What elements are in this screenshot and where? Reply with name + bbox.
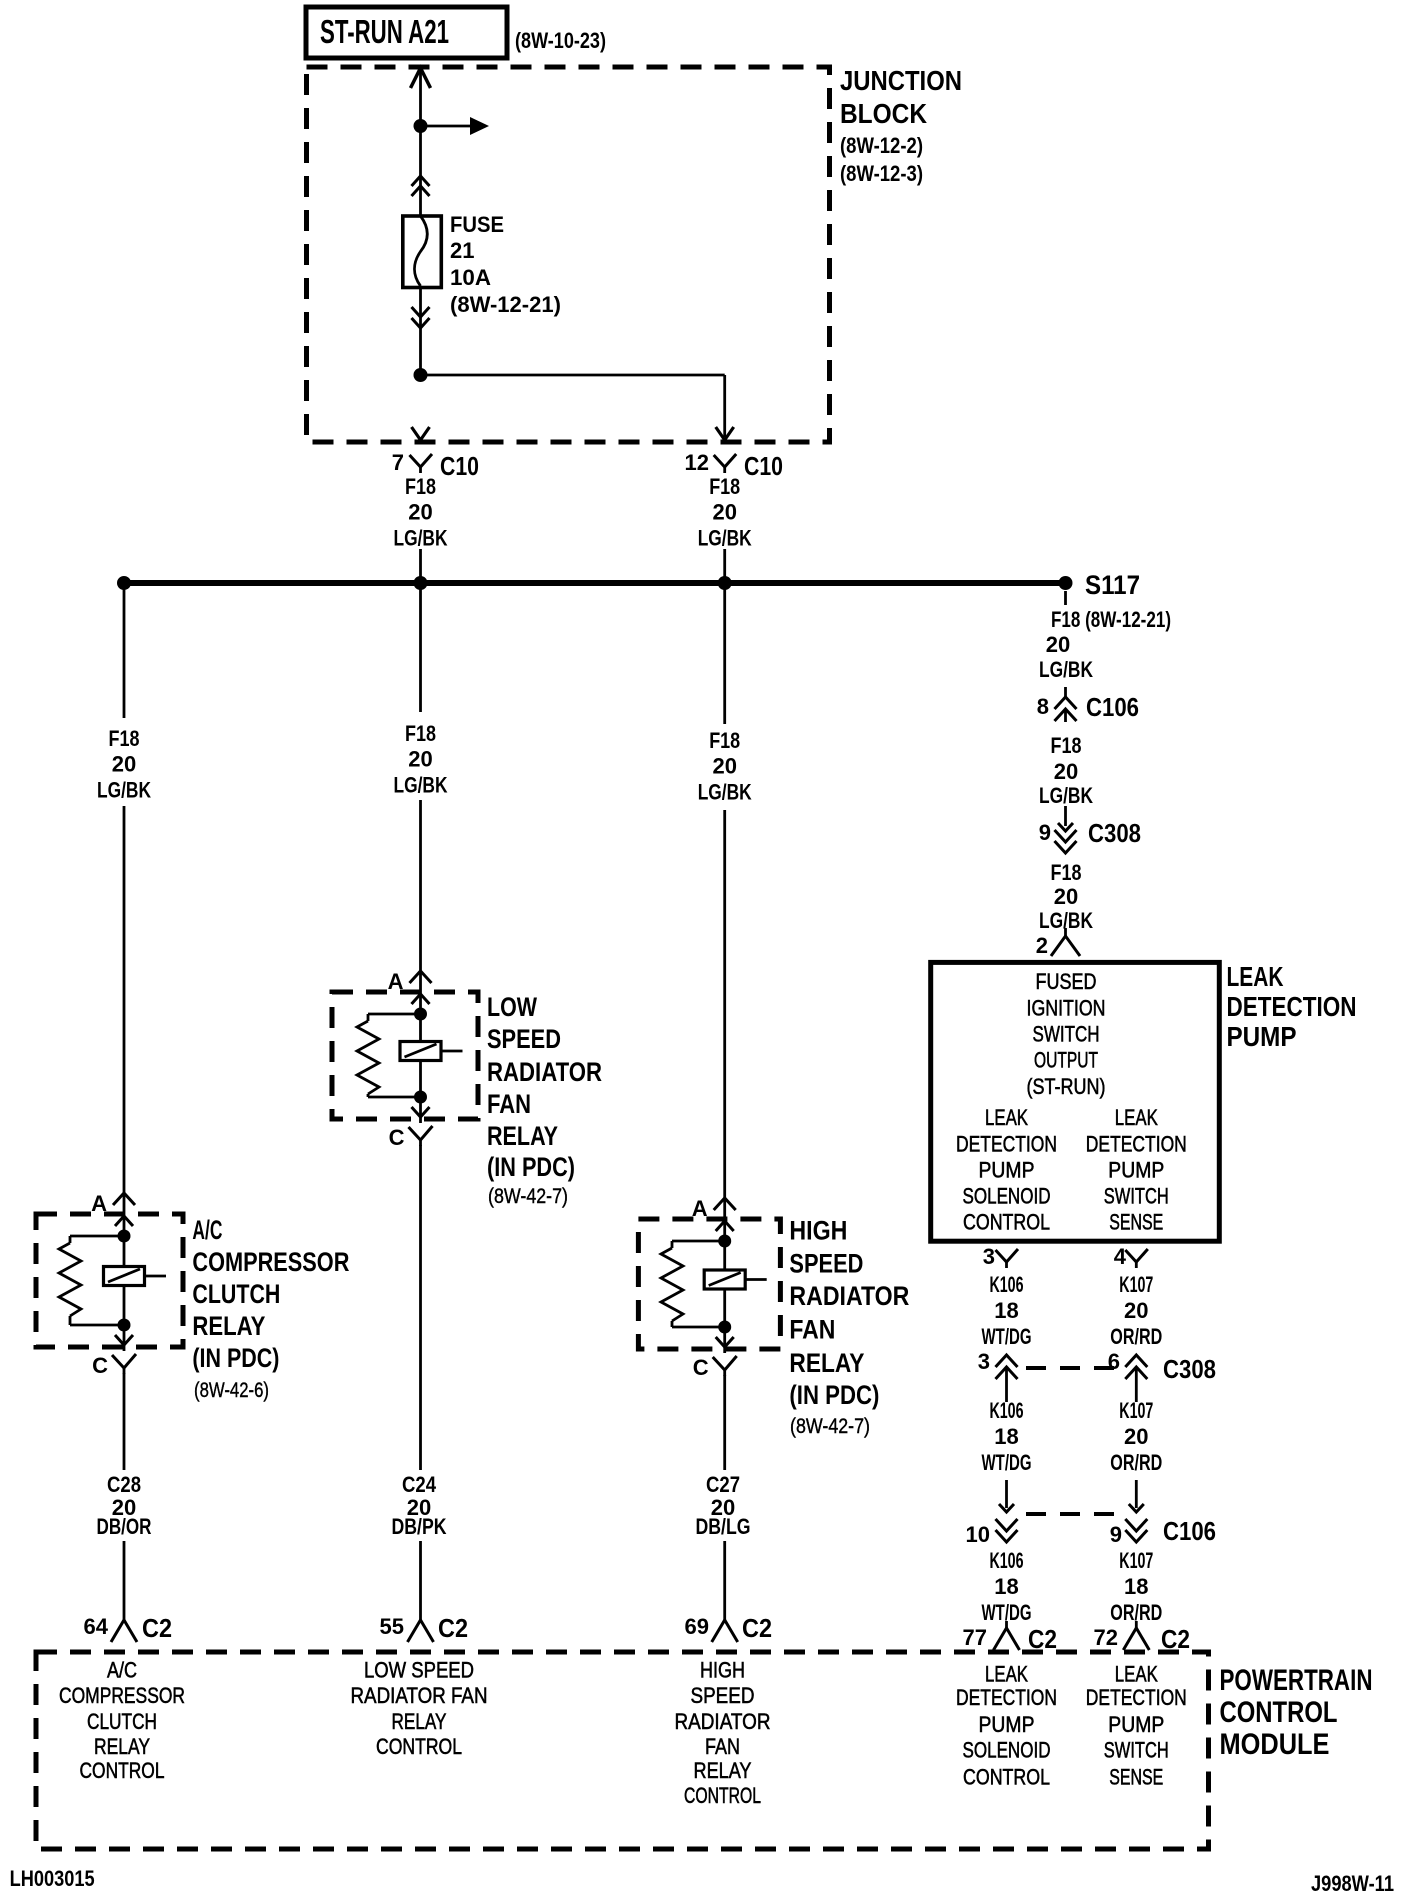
svg-text:C: C (389, 1125, 405, 1150)
splice S117 (1059, 576, 1073, 590)
svg-text:LH003015: LH003015 (10, 1866, 95, 1891)
svg-text:FUSED: FUSED (1036, 969, 1097, 994)
svg-text:F18: F18 (109, 726, 140, 751)
svg-text:RADIATOR: RADIATOR (789, 1281, 909, 1311)
relay coil winding (704, 1270, 745, 1289)
relay coil wire (419, 1014, 422, 1042)
dashed connector link C106 (1026, 1512, 1114, 1516)
svg-text:20: 20 (1124, 1298, 1148, 1323)
wire bus to low speed relay (419, 583, 422, 712)
svg-text:8: 8 (1037, 694, 1049, 719)
svg-text:12: 12 (685, 450, 709, 475)
relay coil dashed enclosure (36, 1214, 183, 1347)
svg-text:RADIATOR: RADIATOR (675, 1709, 771, 1734)
svg-text:C: C (92, 1353, 108, 1378)
svg-text:CONTROL: CONTROL (376, 1734, 462, 1759)
svg-text:2: 2 (1036, 933, 1048, 958)
relay coil wire (723, 1241, 726, 1270)
svg-text:LG/BK: LG/BK (698, 526, 752, 551)
svg-text:6: 6 (1108, 1349, 1120, 1374)
svg-text:HIGH: HIGH (700, 1658, 745, 1683)
svg-text:F18 (8W-12-21): F18 (8W-12-21) (1051, 607, 1171, 632)
svg-text:SPEED: SPEED (789, 1249, 863, 1279)
svg-text:DETECTION: DETECTION (1227, 991, 1357, 1022)
svg-text:4: 4 (1114, 1244, 1127, 1269)
svg-text:COMPRESSOR: COMPRESSOR (192, 1247, 349, 1277)
dashed connector link C308 (1026, 1366, 1114, 1370)
svg-text:IGNITION: IGNITION (1027, 996, 1106, 1021)
svg-text:C106: C106 (1163, 1516, 1216, 1546)
svg-text:(8W-12-21): (8W-12-21) (450, 292, 561, 317)
pin C chevron below relay (713, 1356, 737, 1370)
svg-text:OR/RD: OR/RD (1110, 1450, 1162, 1475)
svg-text:FAN: FAN (705, 1734, 740, 1759)
svg-text:RELAY: RELAY (392, 1709, 447, 1734)
svg-text:SOLENOID: SOLENOID (963, 1737, 1051, 1762)
svg-text:(8W-12-2): (8W-12-2) (840, 133, 923, 158)
svg-text:F18: F18 (709, 474, 740, 499)
wire relay top node to resistor (672, 1240, 725, 1243)
svg-text:55: 55 (380, 1614, 404, 1639)
svg-text:(8W-42-7): (8W-42-7) (488, 1185, 568, 1208)
connector C308 pin 9 (1064, 806, 1067, 826)
svg-text:S117: S117 (1085, 570, 1140, 600)
svg-text:C2: C2 (742, 1613, 772, 1643)
svg-text:20: 20 (408, 747, 432, 772)
svg-text:LG/BK: LG/BK (394, 773, 448, 798)
bus wire F18 to splice S117 (124, 580, 1066, 586)
svg-text:F18: F18 (1051, 860, 1082, 885)
relay coil node top (118, 1230, 131, 1243)
svg-text:FUSE: FUSE (450, 212, 504, 237)
svg-text:(8W-42-7): (8W-42-7) (790, 1415, 870, 1438)
wire high speed relay to label (723, 1375, 726, 1470)
wire stub pin12 to bus (723, 549, 726, 581)
svg-text:(ST-RUN): (ST-RUN) (1027, 1074, 1106, 1099)
svg-text:C308: C308 (1163, 1354, 1216, 1384)
svg-text:K106: K106 (990, 1272, 1024, 1297)
svg-text:CLUTCH: CLUTCH (192, 1279, 280, 1309)
svg-text:DB/LG: DB/LG (696, 1514, 751, 1539)
svg-text:(8W-42-6): (8W-42-6) (194, 1379, 269, 1402)
svg-text:20: 20 (1124, 1424, 1148, 1449)
svg-text:J998W-11: J998W-11 (1311, 1871, 1394, 1896)
relay coil node top (718, 1235, 731, 1248)
svg-text:LEAK: LEAK (1227, 961, 1284, 992)
wire leaving relay with arrowhead (716, 1337, 734, 1347)
svg-text:C: C (693, 1355, 709, 1380)
svg-text:A: A (388, 969, 404, 994)
svg-text:(IN PDC): (IN PDC) (487, 1152, 575, 1182)
svg-text:F18: F18 (709, 728, 740, 753)
relay coil node bottom (118, 1319, 131, 1332)
svg-text:21: 21 (450, 238, 474, 263)
svg-text:F18: F18 (405, 474, 436, 499)
svg-text:A/C: A/C (192, 1215, 222, 1245)
svg-text:C10: C10 (440, 451, 479, 481)
svg-text:20: 20 (112, 752, 136, 777)
svg-text:RELAY: RELAY (192, 1311, 265, 1341)
svg-text:DETECTION: DETECTION (956, 1132, 1057, 1157)
svg-text:DB/OR: DB/OR (97, 1514, 152, 1539)
wire bus to A/C relay (123, 583, 126, 718)
connector C106 pin 8 (1064, 687, 1067, 697)
svg-text:LG/BK: LG/BK (1039, 783, 1093, 808)
fuse 21 10A (403, 216, 442, 288)
wire stub pin7 to bus (419, 549, 422, 581)
svg-text:LEAK: LEAK (1115, 1662, 1158, 1687)
svg-text:JUNCTION: JUNCTION (840, 65, 962, 96)
powertrain control module dashed enclosure (36, 1652, 1209, 1849)
wire bus to high speed relay (723, 583, 726, 724)
connector chevrons above fuse (412, 176, 430, 186)
svg-text:(IN PDC): (IN PDC) (192, 1343, 279, 1373)
svg-text:RELAY: RELAY (94, 1734, 150, 1759)
svg-text:C28: C28 (107, 1472, 141, 1497)
svg-text:FAN: FAN (789, 1315, 835, 1345)
svg-text:18: 18 (1124, 1574, 1148, 1599)
relay coil node bottom (718, 1321, 731, 1334)
svg-text:(IN PDC): (IN PDC) (789, 1380, 879, 1410)
svg-text:ST-RUN A21: ST-RUN A21 (320, 13, 449, 50)
wire tap arrow to right (421, 125, 482, 128)
svg-text:20: 20 (712, 754, 736, 779)
wire to high speed relay pin A (723, 810, 726, 1241)
svg-text:RADIATOR: RADIATOR (487, 1057, 602, 1087)
wire relay top node to resistor (368, 1013, 421, 1016)
wire relay top node to resistor (70, 1235, 124, 1238)
svg-text:LOW: LOW (487, 992, 537, 1022)
svg-text:F18: F18 (1051, 733, 1082, 758)
svg-text:PUMP: PUMP (979, 1158, 1035, 1183)
svg-text:POWERTRAIN: POWERTRAIN (1220, 1664, 1373, 1697)
relay coil node top (414, 1008, 427, 1021)
power feed box ST-RUN A21 (306, 7, 507, 58)
relay suppression resistor (69, 1236, 72, 1243)
wire to PCM pin 69 (723, 1541, 726, 1613)
wire relay bottom node to resistor (70, 1324, 124, 1327)
relay armature stub (745, 1278, 767, 1281)
svg-text:PUMP: PUMP (979, 1712, 1035, 1737)
svg-text:SWITCH: SWITCH (1033, 1022, 1100, 1047)
svg-text:CLUTCH: CLUTCH (87, 1709, 157, 1734)
wire leaving relay with arrowhead (412, 1107, 430, 1117)
svg-text:PUMP: PUMP (1227, 1021, 1297, 1052)
svg-text:CONTROL: CONTROL (80, 1758, 165, 1783)
svg-text:RELAY: RELAY (694, 1758, 752, 1783)
relay coil dashed enclosure (332, 992, 478, 1119)
svg-text:A/C: A/C (107, 1658, 137, 1683)
svg-text:CONTROL: CONTROL (1220, 1696, 1338, 1729)
svg-text:PUMP: PUMP (1108, 1712, 1164, 1737)
relay suppression resistor (367, 1014, 370, 1021)
svg-text:20: 20 (1046, 632, 1070, 657)
svg-text:K106: K106 (990, 1398, 1024, 1423)
svg-text:10: 10 (966, 1522, 990, 1547)
wire leaving relay with arrowhead (115, 1335, 133, 1345)
svg-text:C2: C2 (438, 1613, 468, 1643)
svg-text:72: 72 (1094, 1625, 1118, 1650)
svg-text:64: 64 (84, 1614, 109, 1639)
svg-text:(8W-10-23): (8W-10-23) (515, 28, 606, 53)
svg-text:DETECTION: DETECTION (1086, 1685, 1187, 1710)
svg-text:9: 9 (1039, 820, 1051, 845)
wire to PCM pin 55 (419, 1541, 422, 1613)
wire splice branch to C10 pin 12 (421, 374, 725, 377)
wire feed from ST-RUN into junction block (419, 70, 422, 216)
relay armature stub (145, 1275, 167, 1278)
svg-text:7: 7 (392, 450, 404, 475)
svg-text:RELAY: RELAY (789, 1348, 864, 1378)
svg-text:OR/RD: OR/RD (1110, 1324, 1162, 1349)
svg-text:LEAK: LEAK (985, 1105, 1028, 1130)
wire low speed relay to label (419, 1145, 422, 1470)
svg-text:18: 18 (994, 1574, 1018, 1599)
svg-text:18: 18 (994, 1298, 1018, 1323)
svg-text:OUTPUT: OUTPUT (1034, 1048, 1098, 1073)
svg-text:RELAY: RELAY (487, 1121, 558, 1151)
relay armature stub (441, 1050, 463, 1053)
svg-text:20: 20 (1054, 884, 1078, 909)
svg-text:A: A (692, 1196, 708, 1221)
svg-text:69: 69 (685, 1614, 709, 1639)
svg-text:C27: C27 (706, 1472, 740, 1497)
node junction block tap (414, 119, 428, 133)
svg-text:LEAK: LEAK (1115, 1105, 1158, 1130)
wire to low speed relay pin A (419, 800, 422, 1013)
svg-text:BLOCK: BLOCK (840, 98, 927, 129)
relay suppression resistor (671, 1241, 674, 1248)
svg-text:20: 20 (712, 500, 736, 525)
wire A/C relay to label (123, 1373, 126, 1470)
svg-text:LG/BK: LG/BK (1039, 657, 1093, 682)
wire splice down to C10 pin 7 (412, 427, 430, 440)
svg-text:20: 20 (1054, 759, 1078, 784)
svg-text:(8W-12-3): (8W-12-3) (840, 161, 923, 186)
svg-text:PUMP: PUMP (1108, 1158, 1164, 1183)
svg-text:SWITCH: SWITCH (1104, 1184, 1169, 1209)
svg-text:LOW SPEED: LOW SPEED (364, 1658, 474, 1683)
svg-text:LG/BK: LG/BK (394, 526, 448, 551)
relay coil wire (123, 1236, 126, 1267)
svg-text:HIGH: HIGH (789, 1216, 847, 1246)
svg-text:CONTROL: CONTROL (684, 1783, 761, 1808)
wire to A/C relay pin A (123, 806, 126, 1236)
pin A chevron above relay (714, 1198, 736, 1210)
svg-text:DETECTION: DETECTION (956, 1685, 1057, 1710)
pin C chevron below relay (409, 1126, 433, 1140)
svg-text:WT/DG: WT/DG (982, 1324, 1032, 1349)
svg-text:FAN: FAN (487, 1089, 531, 1119)
svg-text:K107: K107 (1119, 1398, 1153, 1423)
svg-text:SPEED: SPEED (487, 1024, 561, 1054)
pin A chevron above relay (410, 971, 432, 983)
svg-text:DB/PK: DB/PK (392, 1514, 447, 1539)
wire entering relay with arrowhead (412, 994, 430, 1004)
wire entering relay with arrowhead (115, 1216, 133, 1226)
svg-text:RADIATOR FAN: RADIATOR FAN (351, 1683, 488, 1708)
leak detection pump box (931, 962, 1220, 1241)
svg-text:WT/DG: WT/DG (982, 1450, 1032, 1475)
connector C106 pin 10 (1005, 1480, 1008, 1508)
relay coil node bottom (414, 1091, 427, 1104)
svg-text:SWITCH: SWITCH (1104, 1737, 1169, 1762)
svg-text:3: 3 (983, 1244, 995, 1269)
svg-text:K107: K107 (1119, 1272, 1153, 1297)
svg-text:LG/BK: LG/BK (97, 778, 151, 803)
pin C chevron below relay (112, 1354, 136, 1368)
svg-text:18: 18 (994, 1424, 1018, 1449)
node splice inside junction block (414, 368, 428, 382)
svg-text:K106: K106 (990, 1548, 1024, 1573)
svg-text:9: 9 (1110, 1522, 1122, 1547)
relay coil winding (400, 1042, 441, 1061)
svg-text:3: 3 (978, 1349, 990, 1374)
svg-text:C24: C24 (402, 1472, 437, 1497)
svg-text:K107: K107 (1119, 1548, 1153, 1573)
node bus left end (117, 576, 131, 590)
svg-text:SPEED: SPEED (691, 1683, 755, 1708)
svg-text:C308: C308 (1088, 818, 1141, 848)
svg-text:LG/BK: LG/BK (698, 780, 752, 805)
relay coil winding (104, 1267, 145, 1286)
svg-text:C106: C106 (1086, 692, 1139, 722)
svg-text:F18: F18 (405, 721, 436, 746)
svg-text:SENSE: SENSE (1109, 1765, 1163, 1790)
relay coil dashed enclosure (638, 1219, 780, 1349)
svg-text:A: A (91, 1191, 107, 1216)
wire to PCM pin 64 (123, 1541, 126, 1613)
svg-text:DETECTION: DETECTION (1086, 1132, 1187, 1157)
junction block dashed enclosure (307, 67, 830, 442)
svg-text:CONTROL: CONTROL (963, 1210, 1050, 1235)
svg-text:COMPRESSOR: COMPRESSOR (59, 1683, 185, 1708)
svg-text:LEAK: LEAK (985, 1662, 1028, 1687)
svg-text:C10: C10 (744, 451, 783, 481)
node bus tap low speed (414, 576, 428, 590)
wire relay bottom node to resistor (672, 1326, 725, 1329)
svg-text:77: 77 (963, 1625, 987, 1650)
svg-text:SOLENOID: SOLENOID (963, 1184, 1051, 1209)
wire relay bottom node to resistor (368, 1096, 421, 1099)
svg-text:SENSE: SENSE (1109, 1210, 1163, 1235)
svg-text:MODULE: MODULE (1220, 1728, 1330, 1761)
svg-text:CONTROL: CONTROL (963, 1765, 1050, 1790)
wire stub below S117 (1064, 591, 1067, 605)
svg-text:C2: C2 (142, 1613, 172, 1643)
pin A chevron above relay (113, 1193, 135, 1205)
connector C106 pin 9 (1135, 1480, 1138, 1508)
node bus tap high speed (718, 576, 732, 590)
connector chevrons below fuse (412, 307, 430, 317)
svg-text:20: 20 (408, 500, 432, 525)
svg-text:10A: 10A (450, 265, 491, 290)
wire entering relay with arrowhead (716, 1221, 734, 1231)
